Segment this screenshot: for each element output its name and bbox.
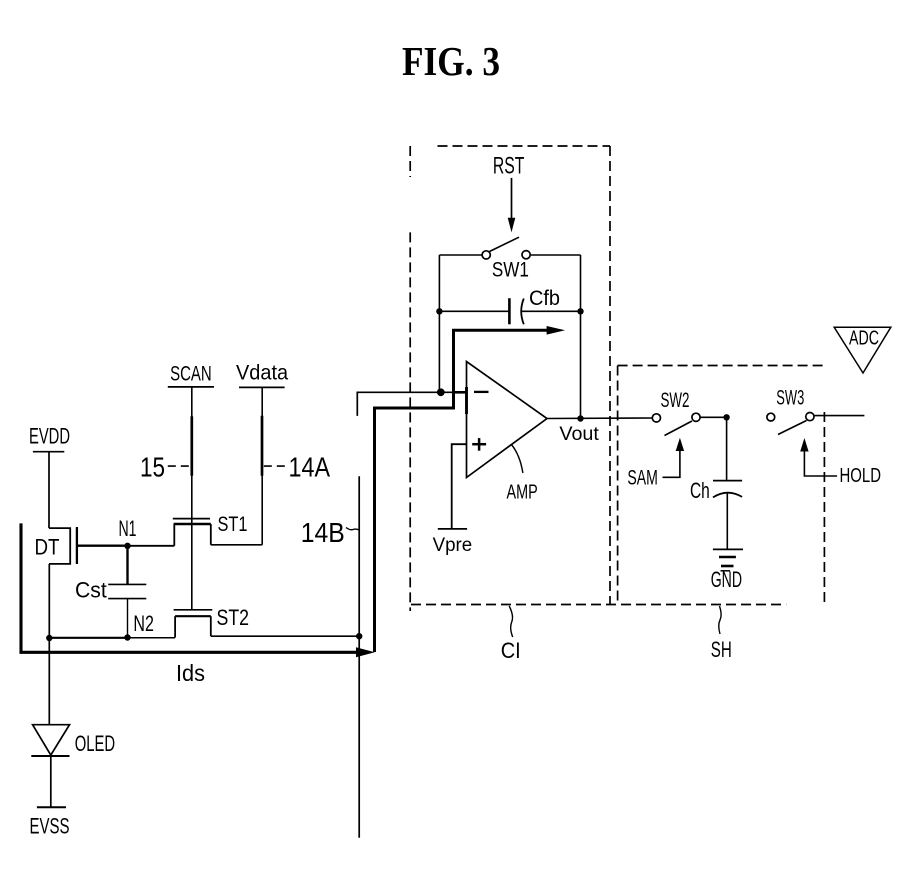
wire 14B vertical line [358, 476, 360, 838]
arrowhead into Cfb [547, 326, 566, 335]
svg-text:SCAN: SCAN [170, 362, 212, 385]
junction dot DT source / N2 row [46, 635, 52, 641]
wire 14B jog into CI [357, 392, 441, 416]
net Vdata terminal [236, 361, 288, 387]
svg-text:GND: GND [711, 567, 742, 592]
svg-text:ST1: ST1 [218, 513, 248, 536]
CI dashed box [410, 146, 786, 611]
svg-text:Vpre: Vpre [433, 534, 473, 556]
diode OLED [31, 725, 115, 756]
svg-text:AMP: AMP [507, 482, 538, 504]
svg-text:OLED: OLED [75, 731, 115, 756]
wire EVDD to DT drain [48, 452, 50, 528]
wire OLED cathode to EVSS [50, 756, 52, 807]
svg-text:CI: CI [501, 638, 521, 663]
node minus-input junction [437, 388, 445, 396]
wire SCAN line down to ST2 gate [191, 387, 193, 610]
svg-text:14B: 14B [301, 517, 345, 548]
arrow RST to SW1 [508, 178, 516, 233]
transistor ST2 [174, 605, 249, 638]
junction dot on 14B line [356, 633, 362, 639]
node Vout [559, 415, 599, 445]
net SCAN terminal [168, 362, 214, 387]
transistor DT [35, 527, 128, 564]
wire ST1 drain to Vdata [211, 544, 262, 546]
wire minus input to amp [441, 391, 467, 393]
label 14B with leader [301, 517, 359, 548]
svg-text:ADC: ADC [849, 327, 879, 349]
wire plus input [452, 444, 467, 529]
svg-text:N1: N1 [119, 516, 137, 541]
capacitor Cst [75, 546, 146, 638]
switch SW3 [767, 387, 865, 435]
wire Vdata line down [261, 387, 263, 544]
SH dashed box [618, 366, 825, 605]
wire SW1 right branch down [580, 255, 582, 419]
label CI with leader [501, 606, 521, 663]
svg-text:SW3: SW3 [776, 387, 804, 410]
svg-text:FIG. 3: FIG. 3 [402, 38, 500, 84]
capacitor Ch [690, 417, 742, 549]
arrow HOLD control [800, 438, 881, 487]
svg-text:14A: 14A [289, 452, 331, 483]
wire N1 to ST1 source [128, 545, 175, 547]
svg-text:Vout: Vout [559, 423, 599, 445]
svg-text:Cfb: Cfb [529, 285, 560, 310]
power Vpre terminal [433, 529, 473, 556]
wire SW1 left branch down [438, 255, 440, 392]
svg-text:Cst: Cst [75, 578, 107, 603]
svg-text:SAM: SAM [627, 466, 658, 490]
svg-text:15: 15 [140, 452, 165, 483]
ADC block [834, 327, 891, 373]
capacitor Cfb [436, 285, 584, 325]
arrow SAM control [627, 438, 684, 490]
thick wire up to CI [375, 330, 548, 652]
svg-text:Ch: Ch [690, 478, 710, 503]
wire N2 row [49, 637, 127, 639]
power EVSS terminal [30, 807, 70, 838]
svg-text:Ids: Ids [176, 660, 205, 686]
svg-text:EVSS: EVSS [30, 813, 70, 838]
label SH with leader [711, 606, 732, 662]
node N2 [124, 611, 154, 641]
op-amp AMP [455, 362, 547, 504]
wire amp output [547, 417, 652, 420]
ground GND [711, 549, 743, 592]
power EVDD terminal [29, 424, 70, 452]
label 15 with dashed leader [140, 452, 191, 483]
label 14A with dashed leader [264, 452, 331, 483]
node SW2 output junction [723, 414, 729, 420]
switch SW2 [652, 389, 726, 436]
svg-text:DT: DT [35, 535, 60, 560]
svg-text:HOLD: HOLD [840, 464, 882, 487]
svg-text:SH: SH [711, 637, 732, 662]
svg-text:SW2: SW2 [661, 389, 690, 412]
svg-text:ST2: ST2 [217, 605, 250, 630]
wire ST2 drain to 14B line [211, 635, 359, 637]
svg-text:Vdata: Vdata [236, 361, 288, 384]
svg-text:RST: RST [493, 153, 525, 180]
wire DT source down to N2 row [48, 564, 50, 725]
node N1 [119, 516, 137, 549]
transistor ST1 [173, 513, 248, 546]
thick sense wire left bracket [21, 523, 358, 652]
svg-text:N2: N2 [133, 611, 154, 636]
arrowhead Ids [356, 647, 375, 657]
svg-text:SW1: SW1 [492, 259, 529, 282]
switch SW1 [439, 237, 580, 281]
svg-text:EVDD: EVDD [29, 424, 70, 449]
